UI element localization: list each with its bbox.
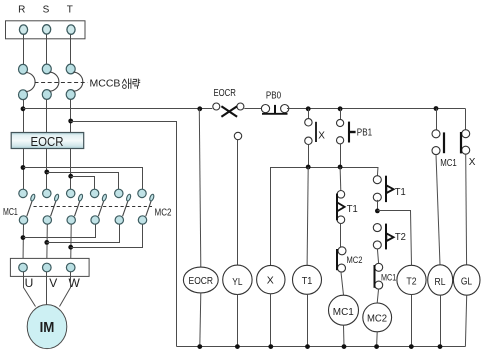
svg-text:MC2: MC2 xyxy=(367,314,388,325)
wire U to motor xyxy=(24,272,36,307)
svg-text:MC1: MC1 xyxy=(3,207,18,218)
contact MC2 (NC interlock) xyxy=(337,247,346,272)
node T2 coil tap xyxy=(375,209,380,214)
terminal R xyxy=(19,25,27,34)
wire T to MCCB xyxy=(70,34,72,64)
column B corner xyxy=(376,167,379,176)
control rail 2 xyxy=(271,167,378,169)
wire RL coil to rail xyxy=(440,295,442,346)
svg-text:EOCR: EOCR xyxy=(213,88,236,99)
pushbutton PB1 (NO) xyxy=(337,109,356,167)
contact EOCR (NC thermal) xyxy=(213,103,244,117)
wire T1 coil drop xyxy=(307,167,308,265)
wire EOCR contact to PB0 xyxy=(244,108,262,110)
contactor MC1 pole3 xyxy=(67,189,84,224)
column A wire xyxy=(339,167,342,191)
wire MC1 contact drop (RL branch) xyxy=(436,109,438,131)
contact X (NO) top xyxy=(305,109,316,167)
terminal T xyxy=(67,25,75,34)
wire EOCR coil drop xyxy=(199,109,201,267)
wire GL coil to rail xyxy=(465,295,466,346)
svg-text:PB0: PB0 xyxy=(266,90,282,101)
wire R to MC2 pole6 xyxy=(24,168,143,190)
svg-text:R: R xyxy=(18,4,25,15)
terminal W xyxy=(66,263,75,272)
node R to MC2 xyxy=(21,165,26,170)
wire MC1 pole2 down xyxy=(46,224,49,263)
control line 1 right segment xyxy=(287,108,465,110)
contact MC1 (NO, RL) xyxy=(432,130,444,155)
contact T2 (timed NO) xyxy=(373,224,393,250)
wire MC1 pole3 down xyxy=(70,224,73,263)
wire W to motor xyxy=(60,272,71,307)
wire T to MC2 pole4 xyxy=(71,177,95,190)
svg-text:EOCR: EOCR xyxy=(31,134,64,149)
wire R MCCB to EOCR xyxy=(23,99,25,132)
contactor MC1 pole1 xyxy=(19,189,36,224)
svg-text:GL: GL xyxy=(461,275,472,287)
MCCB pole 2 xyxy=(42,64,59,99)
wire T EOCR to MC1 xyxy=(70,149,72,190)
wire R to MCCB xyxy=(23,34,25,64)
svg-text:YL: YL xyxy=(232,276,242,288)
terminal U xyxy=(19,263,28,272)
wire to MC1 interlock xyxy=(377,249,378,264)
node PB1 branch xyxy=(338,106,343,111)
wire MC1 coil to rail xyxy=(343,325,346,346)
MCCB pole 3 xyxy=(66,64,83,99)
wire R EOCR to MC1 xyxy=(23,149,25,190)
node EOCR coil tap xyxy=(197,106,202,111)
wire S EOCR to MC1 xyxy=(46,149,48,190)
MCCB trip dashed link xyxy=(35,82,88,84)
contact MC1 (NC interlock) xyxy=(375,263,383,289)
wire to MC2 coil xyxy=(377,289,378,303)
control line 1 left segment xyxy=(23,108,212,110)
coil YL xyxy=(223,265,252,294)
wire T2 coil to rail xyxy=(411,295,413,347)
svg-text:S: S xyxy=(43,4,50,15)
svg-text:MCCB: MCCB xyxy=(90,78,121,90)
svg-text:T2: T2 xyxy=(395,232,406,243)
wire S to MC2 pole5 xyxy=(47,173,119,190)
svg-text:T: T xyxy=(67,4,73,15)
motor IM xyxy=(27,305,67,349)
contact X (NO, GL) xyxy=(461,130,470,155)
top terminal block xyxy=(6,21,86,39)
svg-text:EOCR: EOCR xyxy=(189,276,214,287)
terminal S xyxy=(43,25,51,34)
node MC1/RL branch xyxy=(434,106,439,111)
coil RL xyxy=(428,265,453,295)
pushbutton PB0 (NC) xyxy=(261,105,288,114)
wire S to MCCB xyxy=(46,34,48,64)
contactor MC1 pole2 xyxy=(43,189,60,224)
svg-text:PB1: PB1 xyxy=(357,128,373,139)
coil MC1 xyxy=(329,295,359,325)
wire MC2 pole6 to T xyxy=(71,225,143,248)
svg-text:IM: IM xyxy=(40,319,55,336)
node rail MC2 xyxy=(374,344,379,349)
wire MC2 coil to rail xyxy=(376,332,379,347)
node rail2 colA xyxy=(338,165,343,170)
wire X coil drop xyxy=(270,167,272,265)
wire YL coil to rail xyxy=(237,295,239,347)
wire T1 coil to rail xyxy=(307,294,309,346)
svg-text:T1: T1 xyxy=(347,204,358,215)
bottom terminal block xyxy=(10,258,89,276)
node merge S xyxy=(44,240,49,245)
svg-text:T1: T1 xyxy=(302,275,313,287)
MCCB pole 1 xyxy=(19,64,36,99)
wire MC1 pole1 down xyxy=(22,224,25,263)
wire YL drop xyxy=(237,140,239,265)
wire V to motor xyxy=(46,272,48,305)
wire MC2 pole4 to R xyxy=(24,225,96,238)
contactor MC2 pole5 xyxy=(115,189,132,224)
svg-text:MC1: MC1 xyxy=(381,272,396,283)
svg-text:T1: T1 xyxy=(395,187,406,198)
wire to GL coil xyxy=(465,154,468,265)
contactor MC2 pole6 xyxy=(138,189,155,224)
wire T MCCB to EOCR xyxy=(70,99,72,132)
node S to MC2 xyxy=(44,170,49,175)
wire S MCCB to EOCR xyxy=(46,99,48,132)
wire T2 coil link xyxy=(378,211,412,266)
node rail2 T1 xyxy=(306,165,311,170)
node rail EOCR xyxy=(197,344,202,349)
node rail T1 xyxy=(305,344,310,349)
contactor dashed link xyxy=(34,206,153,208)
svg-text:MC2: MC2 xyxy=(155,207,172,218)
coil T2 xyxy=(397,265,426,294)
control line 1 end corner to X contact xyxy=(465,109,467,131)
wire control feed 2 to right rail xyxy=(71,122,177,347)
wire MC2 pole5 to S xyxy=(47,225,120,243)
node merge R xyxy=(21,235,26,240)
svg-text:MC2: MC2 xyxy=(347,255,363,266)
node rail MC1 xyxy=(342,344,347,349)
node control feed 1 xyxy=(21,106,26,111)
coil T1 xyxy=(293,265,322,294)
node X branch xyxy=(306,106,311,111)
wire EOCR coil to rail xyxy=(200,293,201,347)
svg-text:U: U xyxy=(25,276,34,290)
node T to MC2 xyxy=(68,174,73,179)
terminal YL tap xyxy=(234,132,241,139)
coil MC2 xyxy=(363,303,392,332)
svg-text:X: X xyxy=(318,130,325,141)
terminal V xyxy=(43,263,52,272)
svg-text:RL: RL xyxy=(435,276,446,288)
contact T1 (timed NO) column B xyxy=(373,176,393,202)
svg-text:V: V xyxy=(49,276,57,290)
node merge T xyxy=(68,245,73,250)
wire to MC2 interlock xyxy=(340,223,342,247)
svg-text:T2: T2 xyxy=(406,275,416,287)
wire to MC1 coil xyxy=(341,271,344,295)
node rail T2 xyxy=(409,344,414,349)
label MCCB생략 xyxy=(90,78,141,90)
wire X coil to rail xyxy=(270,294,272,347)
svg-text:X: X xyxy=(469,157,476,168)
svg-text:MC1: MC1 xyxy=(333,307,354,318)
coil EOCR xyxy=(183,267,218,293)
node rail X xyxy=(268,344,273,349)
svg-text:X: X xyxy=(267,275,274,287)
EOCR box xyxy=(11,133,84,149)
wire to RL coil xyxy=(436,155,440,265)
node rail YL xyxy=(235,344,240,349)
bottom rail xyxy=(177,346,466,348)
coil X xyxy=(257,265,285,293)
svg-text:MC1: MC1 xyxy=(440,158,457,169)
node control feed 2 xyxy=(68,119,73,124)
node rail RL xyxy=(438,344,443,349)
coil GL xyxy=(453,265,480,295)
contact T1 (timed NO) column A xyxy=(337,191,345,224)
contactor MC2 pole4 xyxy=(90,189,107,224)
wire to node xyxy=(377,200,379,211)
